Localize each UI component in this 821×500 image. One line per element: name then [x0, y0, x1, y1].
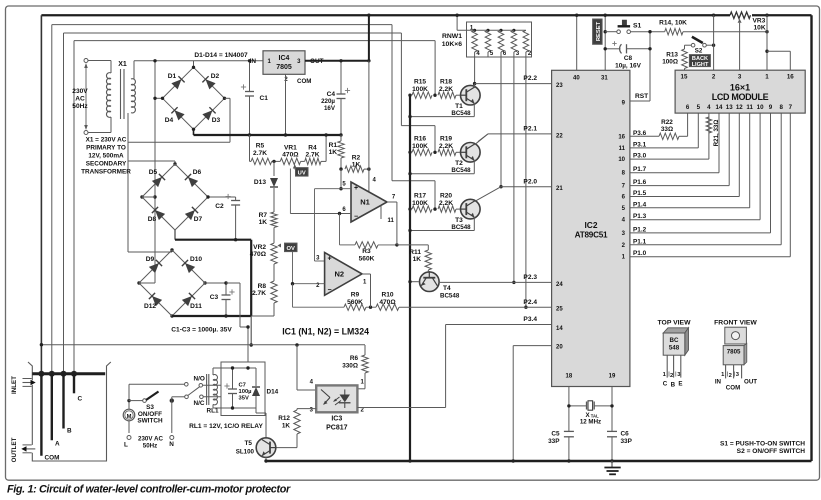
svg-text:D14: D14: [267, 389, 279, 396]
svg-text:10: 10: [757, 104, 764, 111]
svg-text:33P: 33P: [621, 438, 633, 445]
svg-text:LCD MODULE: LCD MODULE: [712, 92, 769, 102]
svg-text:P3.1: P3.1: [633, 141, 647, 148]
svg-text:D2: D2: [211, 73, 220, 80]
svg-text:D13: D13: [254, 179, 266, 186]
svg-text:R11: R11: [409, 249, 421, 256]
svg-text:560K: 560K: [347, 299, 363, 306]
svg-text:560K: 560K: [359, 256, 375, 263]
svg-text:R19: R19: [440, 136, 452, 143]
svg-text:230V AC: 230V AC: [138, 436, 163, 443]
svg-text:B: B: [671, 382, 676, 389]
svg-text:IC3: IC3: [331, 416, 342, 423]
svg-text:R7: R7: [259, 212, 268, 219]
svg-text:T5: T5: [245, 440, 253, 447]
svg-text:548: 548: [669, 345, 680, 352]
svg-text:13: 13: [726, 104, 733, 111]
svg-text:S2 = ON/OFF SWITCH: S2 = ON/OFF SWITCH: [737, 448, 806, 455]
svg-text:330Ω: 330Ω: [342, 363, 358, 370]
svg-text:10K×6: 10K×6: [442, 41, 462, 48]
svg-text:OUTLET: OUTLET: [11, 437, 18, 462]
svg-text:D4: D4: [165, 117, 174, 124]
svg-text:+: +: [354, 185, 358, 192]
svg-text:10µ, 16V: 10µ, 16V: [615, 63, 641, 70]
svg-text:D3: D3: [212, 117, 221, 124]
svg-text:2.7K: 2.7K: [252, 290, 266, 297]
svg-text:BC548: BC548: [451, 110, 471, 117]
svg-text:R2: R2: [352, 155, 361, 162]
svg-text:R4: R4: [308, 145, 317, 152]
svg-text:C2: C2: [215, 203, 224, 210]
svg-text:P3.4: P3.4: [523, 316, 537, 323]
svg-text:IN: IN: [715, 379, 722, 386]
svg-text:1: 1: [765, 74, 769, 81]
svg-text:P3.6: P3.6: [633, 130, 647, 137]
svg-text:SECONDARY: SECONDARY: [86, 161, 127, 168]
svg-text:40: 40: [573, 76, 580, 82]
svg-text:P1.2: P1.2: [633, 226, 647, 233]
svg-text:D1-D14 = 1N4007: D1-D14 = 1N4007: [194, 52, 248, 59]
svg-text:D5: D5: [149, 169, 158, 176]
svg-text:P2.1: P2.1: [523, 126, 537, 133]
svg-text:PRIMARY TO: PRIMARY TO: [86, 145, 126, 152]
svg-text:BC548: BC548: [451, 224, 471, 231]
svg-text:16×1: 16×1: [730, 82, 750, 92]
svg-text:14: 14: [716, 104, 723, 111]
svg-text:20: 20: [556, 344, 563, 350]
svg-text:22: 22: [556, 133, 563, 139]
svg-text:21: 21: [556, 186, 563, 192]
svg-text:D11: D11: [190, 303, 202, 310]
svg-text:1K: 1K: [413, 256, 422, 263]
svg-text:C6: C6: [621, 431, 630, 438]
svg-text:3: 3: [738, 74, 742, 81]
svg-text:D6: D6: [193, 169, 202, 176]
svg-text:RNW1: RNW1: [442, 33, 462, 40]
svg-text:P1.1: P1.1: [633, 238, 647, 245]
svg-text:PC817: PC817: [326, 425, 348, 432]
svg-text:D9: D9: [146, 256, 155, 263]
svg-text:D12: D12: [144, 303, 156, 310]
svg-text:R14, 10K: R14, 10K: [659, 20, 687, 27]
svg-text:COM: COM: [45, 455, 60, 462]
svg-text:VR2: VR2: [253, 244, 266, 251]
svg-text:N/O: N/O: [194, 376, 205, 383]
svg-text:50Hz: 50Hz: [72, 103, 88, 110]
svg-text:P2.0: P2.0: [523, 178, 537, 185]
svg-text:1K: 1K: [352, 162, 361, 169]
svg-text:N1: N1: [360, 198, 370, 207]
svg-text:VR1: VR1: [284, 145, 297, 152]
svg-text:5: 5: [697, 104, 701, 111]
svg-text:P3.0: P3.0: [633, 153, 647, 160]
svg-text:100K: 100K: [412, 143, 428, 150]
svg-text:33Ω: 33Ω: [661, 126, 673, 133]
svg-text:7805: 7805: [727, 349, 741, 356]
svg-text:N2: N2: [335, 269, 345, 278]
svg-text:L: L: [124, 442, 128, 449]
svg-text:R17: R17: [414, 193, 426, 200]
svg-text:P2.4: P2.4: [523, 299, 537, 306]
svg-text:33P: 33P: [548, 438, 560, 445]
svg-text:C5: C5: [551, 431, 560, 438]
svg-text:IC1 (N1, N2) = LM324: IC1 (N1, N2) = LM324: [282, 327, 369, 337]
svg-text:Fig. 1: Circuit of water-level: Fig. 1: Circuit of water-level controlle…: [7, 484, 291, 496]
svg-text:R1: R1: [329, 142, 338, 149]
svg-text:100K: 100K: [412, 86, 428, 93]
svg-text:P2.3: P2.3: [523, 274, 537, 281]
svg-text:9: 9: [769, 104, 773, 111]
svg-text:C: C: [78, 396, 83, 403]
svg-text:R21, 33Ω: R21, 33Ω: [713, 120, 720, 147]
svg-text:INLET: INLET: [11, 376, 18, 394]
svg-text:BC548: BC548: [440, 293, 460, 300]
svg-text:11: 11: [619, 146, 626, 152]
svg-text:1K: 1K: [259, 219, 268, 226]
svg-text:−: −: [354, 214, 358, 221]
svg-text:P2.2: P2.2: [523, 75, 537, 82]
svg-text:B: B: [67, 428, 72, 435]
svg-text:R3: R3: [362, 248, 371, 255]
svg-text:R15: R15: [414, 79, 426, 86]
svg-text:C1-C3 = 1000µ. 35V: C1-C3 = 1000µ. 35V: [171, 327, 232, 334]
svg-text:470Ω: 470Ω: [250, 251, 267, 258]
svg-text:D10: D10: [190, 256, 202, 263]
svg-text:R10: R10: [381, 292, 393, 299]
svg-text:100K: 100K: [412, 200, 428, 207]
svg-text:LIGHT: LIGHT: [692, 62, 709, 68]
svg-text:50Hz: 50Hz: [143, 443, 157, 450]
svg-text:6: 6: [686, 104, 690, 111]
svg-text:11: 11: [388, 218, 395, 224]
svg-text:D8: D8: [148, 216, 157, 223]
svg-text:C1: C1: [260, 95, 269, 102]
svg-text:16V: 16V: [324, 105, 336, 112]
svg-text:R12: R12: [278, 415, 290, 422]
svg-text:2.7K: 2.7K: [306, 152, 320, 159]
svg-text:S1: S1: [633, 23, 642, 30]
svg-text:FRONT VIEW: FRONT VIEW: [714, 320, 757, 327]
svg-text:RST: RST: [635, 93, 648, 100]
svg-text:100Ω: 100Ω: [662, 59, 678, 66]
svg-text:7: 7: [789, 104, 793, 111]
svg-text:VR3: VR3: [753, 17, 766, 24]
svg-text:OV: OV: [287, 246, 296, 252]
svg-text:31: 31: [601, 76, 608, 82]
svg-text:N: N: [169, 441, 174, 448]
svg-text:RL1 = 12V, 1C/O RELAY: RL1 = 12V, 1C/O RELAY: [189, 423, 263, 430]
svg-text:P1.0: P1.0: [633, 250, 647, 257]
svg-text:470Ω: 470Ω: [379, 299, 396, 306]
svg-text:RESET: RESET: [596, 21, 602, 41]
svg-text:P1.6: P1.6: [633, 179, 647, 186]
svg-text:7805: 7805: [276, 64, 292, 71]
svg-text:2: 2: [729, 373, 732, 379]
svg-text:2: 2: [670, 373, 673, 379]
svg-text:R6: R6: [350, 355, 359, 362]
svg-text:P1.7: P1.7: [633, 166, 647, 173]
svg-text:25: 25: [556, 307, 563, 313]
svg-text:AC: AC: [75, 96, 85, 103]
svg-text:−: −: [328, 287, 332, 294]
svg-text:C7: C7: [239, 383, 246, 389]
svg-text:S1 = PUSH-TO-ON SWITCH: S1 = PUSH-TO-ON SWITCH: [720, 441, 805, 448]
svg-text:R22: R22: [661, 119, 673, 126]
svg-text:R9: R9: [351, 292, 360, 299]
svg-text:C3: C3: [210, 294, 219, 301]
svg-text:2.7K: 2.7K: [253, 150, 267, 157]
svg-text:24: 24: [556, 282, 563, 288]
svg-text:BC548: BC548: [451, 167, 471, 174]
svg-text:BC: BC: [670, 337, 679, 344]
svg-text:D1: D1: [168, 73, 177, 80]
svg-text:19: 19: [609, 374, 616, 380]
svg-text:R5: R5: [256, 143, 265, 150]
svg-text:100µ: 100µ: [239, 389, 252, 395]
svg-text:16: 16: [787, 74, 794, 81]
svg-text:TRANSFORMER: TRANSFORMER: [81, 169, 131, 176]
svg-text:R18: R18: [440, 79, 452, 86]
svg-text:35V: 35V: [239, 396, 249, 402]
svg-text:230V: 230V: [72, 88, 88, 95]
svg-text:P1.4: P1.4: [633, 201, 647, 208]
svg-text:C8: C8: [624, 55, 633, 62]
svg-text:R20: R20: [440, 193, 452, 200]
svg-text:A: A: [55, 441, 60, 448]
svg-text:P1.5: P1.5: [633, 190, 647, 197]
svg-text:1K: 1K: [282, 423, 291, 430]
svg-text:+: +: [328, 256, 332, 263]
svg-text:C: C: [663, 381, 668, 388]
svg-text:1K: 1K: [329, 149, 338, 156]
svg-text:SL100: SL100: [236, 449, 255, 456]
svg-text:E: E: [678, 381, 682, 388]
svg-text:C4: C4: [327, 91, 336, 98]
svg-text:P1.3: P1.3: [633, 213, 647, 220]
svg-text:2.2K: 2.2K: [439, 200, 453, 207]
svg-text:UV: UV: [298, 170, 306, 176]
svg-text:N/C: N/C: [194, 400, 205, 407]
svg-text:S2: S2: [695, 48, 703, 55]
svg-text:2: 2: [712, 74, 716, 81]
svg-text:16: 16: [618, 134, 625, 140]
svg-text:COM: COM: [297, 78, 311, 85]
svg-text:IN: IN: [250, 58, 257, 65]
svg-text:12V, 500mA: 12V, 500mA: [88, 153, 124, 160]
svg-text:COM: COM: [726, 385, 740, 392]
svg-text:12: 12: [736, 104, 743, 111]
svg-text:15: 15: [681, 74, 688, 81]
svg-text:12 MHz: 12 MHz: [580, 419, 601, 426]
svg-text:11: 11: [746, 104, 753, 111]
svg-text:2.2K: 2.2K: [439, 143, 453, 150]
svg-text:T4: T4: [443, 285, 451, 292]
svg-text:M: M: [127, 414, 132, 420]
svg-text:IC4: IC4: [279, 55, 290, 62]
svg-text:14: 14: [556, 326, 563, 332]
svg-text:8: 8: [779, 104, 783, 111]
svg-text:OUT: OUT: [744, 379, 757, 386]
svg-text:10: 10: [618, 157, 625, 163]
svg-text:D7: D7: [194, 216, 203, 223]
svg-text:R8: R8: [258, 283, 267, 290]
svg-text:TOP VIEW: TOP VIEW: [658, 320, 692, 327]
svg-text:X1: X1: [118, 61, 127, 68]
svg-text:R13: R13: [666, 52, 678, 59]
svg-text:23: 23: [556, 83, 563, 89]
svg-text:220µ: 220µ: [321, 98, 335, 105]
svg-text:IC2: IC2: [584, 220, 597, 230]
svg-text:RL1: RL1: [206, 408, 219, 415]
svg-text:470Ω: 470Ω: [282, 152, 299, 159]
svg-text:X1 = 230V AC: X1 = 230V AC: [86, 137, 127, 144]
svg-text:4: 4: [707, 104, 711, 111]
svg-text:2.2K: 2.2K: [439, 86, 453, 93]
svg-text:10K: 10K: [754, 25, 766, 32]
svg-text:18: 18: [566, 374, 573, 380]
svg-text:AT89C51: AT89C51: [575, 230, 608, 239]
svg-text:R16: R16: [414, 136, 426, 143]
svg-text:SWITCH: SWITCH: [137, 418, 163, 425]
